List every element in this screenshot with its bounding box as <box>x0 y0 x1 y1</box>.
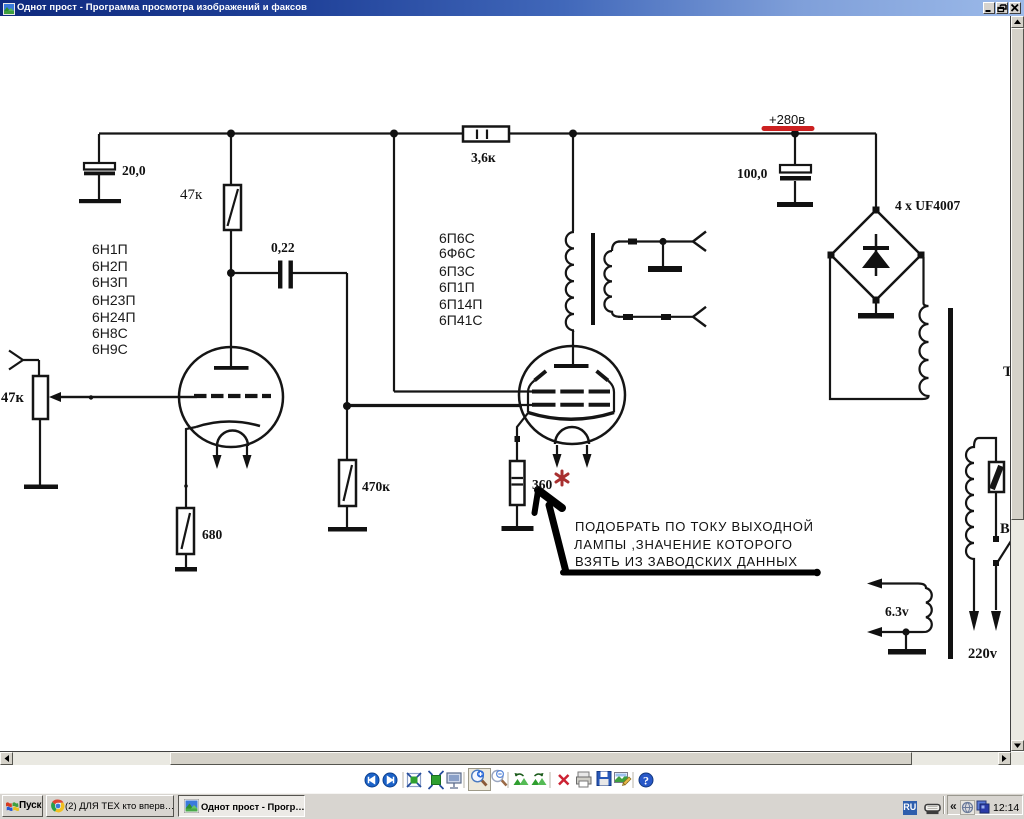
svg-text:6Н1П: 6Н1П <box>92 241 128 257</box>
svg-text:100,0: 100,0 <box>737 166 768 181</box>
svg-text:360: 360 <box>532 477 553 492</box>
svg-text:ВЗЯТЬ ИЗ ЗАВОДСКИХ ДАННЫХ: ВЗЯТЬ ИЗ ЗАВОДСКИХ ДАННЫХ <box>575 554 797 569</box>
svg-text:?: ? <box>643 774 649 788</box>
svg-text:В: В <box>1000 521 1010 537</box>
svg-text:6П1П: 6П1П <box>439 279 475 295</box>
svg-text:6П3С: 6П3С <box>439 263 475 279</box>
svg-text:+280в: +280в <box>769 112 805 127</box>
svg-text:6Н9С: 6Н9С <box>92 341 128 357</box>
svg-text:Т: Т <box>1003 364 1010 380</box>
svg-text:3,6к: 3,6к <box>471 150 496 165</box>
svg-text:ПОДОБРАТЬ ПО ТОКУ ВЫХОДНОЙ: ПОДОБРАТЬ ПО ТОКУ ВЫХОДНОЙ <box>575 519 813 534</box>
svg-text:6.3v: 6.3v <box>885 604 909 619</box>
svg-text:470к: 470к <box>362 479 390 494</box>
svg-text:47к: 47к <box>1 390 25 406</box>
svg-text:6Н2П: 6Н2П <box>92 258 128 274</box>
svg-text:4 x UF4007: 4 x UF4007 <box>895 198 960 213</box>
svg-text:6Н8С: 6Н8С <box>92 325 128 341</box>
svg-text:0,22: 0,22 <box>271 240 295 255</box>
svg-text:6П14П: 6П14П <box>439 296 482 312</box>
svg-text:6Ф6С: 6Ф6С <box>439 245 475 261</box>
svg-text:6П41С: 6П41С <box>439 312 483 328</box>
svg-text:6Н3П: 6Н3П <box>92 274 128 290</box>
svg-text:20,0: 20,0 <box>122 163 146 178</box>
svg-text:47к: 47к <box>180 187 203 203</box>
svg-text:680: 680 <box>202 527 223 542</box>
svg-text:ЛАМПЫ ,ЗНАЧЕНИЕ КОТОРОГО: ЛАМПЫ ,ЗНАЧЕНИЕ КОТОРОГО <box>574 537 792 552</box>
svg-text:220v: 220v <box>968 646 998 662</box>
svg-text:6Н24П: 6Н24П <box>92 309 136 325</box>
svg-text:6Н23П: 6Н23П <box>92 292 136 308</box>
svg-text:6П6С: 6П6С <box>439 230 475 246</box>
